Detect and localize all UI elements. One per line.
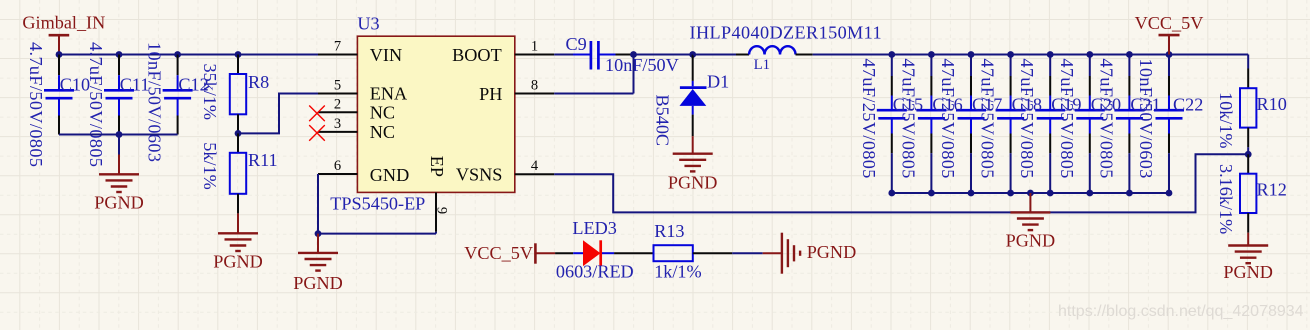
no-connect X pin 2 xyxy=(309,106,325,122)
capacitor C11 4.7uF/50V/0805 xyxy=(86,42,149,167)
capacitor C12 10nF/50V/0603 xyxy=(145,42,209,162)
wire VCC to LED3 xyxy=(555,252,573,254)
node junction C21 top xyxy=(1126,51,1133,58)
svg-text:PGND: PGND xyxy=(293,273,343,293)
wire node to L1 xyxy=(693,54,749,56)
svg-text:4.7uF/50V/0805: 4.7uF/50V/0805 xyxy=(26,42,46,167)
svg-text:7: 7 xyxy=(334,39,341,55)
wire R13 to PGND xyxy=(693,252,763,254)
node junction C15 top xyxy=(888,51,895,58)
node junction C11 bottom xyxy=(116,131,123,138)
LED LED3 0603/RED xyxy=(556,218,634,282)
resistor R13 1k/1% xyxy=(654,221,702,282)
wire bank top rail xyxy=(892,54,1248,56)
wire BOOT to C9 xyxy=(554,54,573,56)
svg-text:5k/1%: 5k/1% xyxy=(200,142,220,190)
ground PGND below D1 xyxy=(668,136,718,192)
svg-text:47uF/25V/0805: 47uF/25V/0805 xyxy=(938,58,958,178)
svg-text:VSNS: VSNS xyxy=(456,165,503,185)
svg-text:https://blog.csdn.net/qq_42078: https://blog.csdn.net/qq_42078934 xyxy=(1058,303,1304,320)
svg-text:3: 3 xyxy=(334,116,341,132)
node junction C18 top xyxy=(1007,51,1014,58)
node junction C22 top xyxy=(1166,51,1173,58)
svg-text:4.7uF/50V/0805: 4.7uF/50V/0805 xyxy=(86,42,106,167)
node junction C17 top xyxy=(968,51,975,58)
diode D1 B540C xyxy=(653,55,730,147)
designator label C15 xyxy=(893,95,923,115)
node junction bank PGND xyxy=(1027,190,1034,197)
ground PGND below R12 xyxy=(1223,233,1273,282)
pin 5 ENA xyxy=(318,78,407,104)
capacitor C10 4.7uF/50V/0805 xyxy=(26,42,90,167)
wire PH net xyxy=(554,55,633,94)
svg-text:9: 9 xyxy=(434,207,450,214)
ground PGND below C11 xyxy=(94,135,144,213)
designator label C19 xyxy=(1051,95,1081,115)
wire C9 to node xyxy=(616,54,634,56)
svg-text:NC: NC xyxy=(370,103,395,123)
node junction C19 bottom xyxy=(1047,190,1054,197)
svg-text:47uF/25V/0805: 47uF/25V/0805 xyxy=(978,58,998,178)
svg-text:C22: C22 xyxy=(1173,95,1203,115)
svg-text:GND: GND xyxy=(370,165,409,185)
node junction R10 bottom xyxy=(1245,151,1252,158)
pin 1 BOOT xyxy=(452,39,554,65)
wire GND to EP xyxy=(318,233,436,235)
resistor R8 35k/1% xyxy=(200,55,269,134)
node junction D1 top xyxy=(689,51,696,58)
designator label C21 xyxy=(1130,95,1160,115)
svg-text:R13: R13 xyxy=(654,221,684,241)
svg-text:PGND: PGND xyxy=(668,172,718,192)
no-connect X pin 3 xyxy=(309,125,325,141)
svg-text:VCC_5V: VCC_5V xyxy=(464,243,533,263)
wire R8 to ENA xyxy=(238,94,318,134)
pin 7 VIN xyxy=(318,39,402,65)
node junction C10 top xyxy=(56,51,63,58)
svg-text:0603/RED: 0603/RED xyxy=(556,262,634,282)
pin 3 NC xyxy=(318,116,395,142)
wire LED3 to R13 xyxy=(614,252,653,254)
node junction C20 top xyxy=(1086,51,1093,58)
svg-text:C16: C16 xyxy=(932,95,962,115)
svg-text:10k/1%: 10k/1% xyxy=(1216,92,1236,149)
svg-text:U3: U3 xyxy=(357,14,379,34)
svg-text:NC: NC xyxy=(370,122,395,142)
capacitor C19 47uF/25V/0805 xyxy=(1017,55,1065,194)
svg-text:R10: R10 xyxy=(1257,94,1287,114)
svg-text:1: 1 xyxy=(531,39,538,55)
svg-text:D1: D1 xyxy=(707,71,729,91)
ground PGND below U3 xyxy=(293,234,343,293)
pin 9 EP xyxy=(427,156,450,232)
svg-text:5: 5 xyxy=(334,78,341,94)
ground PGND below bank xyxy=(1006,193,1056,251)
designator label C18 xyxy=(1012,95,1042,115)
watermark xyxy=(1058,303,1304,320)
svg-text:PGND: PGND xyxy=(213,252,263,272)
capacitor C21 47uF/25V/0805 xyxy=(1096,55,1144,194)
svg-text:47uF/25V/0805: 47uF/25V/0805 xyxy=(1017,58,1037,178)
capacitor C17 47uF/25V/0805 xyxy=(938,55,986,194)
svg-text:C10: C10 xyxy=(60,75,90,95)
svg-text:C17: C17 xyxy=(972,95,1002,115)
svg-text:C19: C19 xyxy=(1051,95,1081,115)
svg-text:ENA: ENA xyxy=(370,84,407,104)
capacitor C15 47uF/25V/0805 xyxy=(859,55,907,194)
resistor R12 3.16k/1% xyxy=(1216,154,1287,234)
node junction GND PGND xyxy=(315,230,322,237)
svg-text:C15: C15 xyxy=(893,95,923,115)
node junction C15 bottom xyxy=(888,190,895,197)
svg-text:1k/1%: 1k/1% xyxy=(654,262,702,282)
svg-text:47uF/25V/0805: 47uF/25V/0805 xyxy=(1057,58,1077,178)
pin 4 VSNS xyxy=(456,158,554,185)
power port VCC_5V LED row xyxy=(464,243,555,264)
power port VCC_5V right xyxy=(1135,13,1204,55)
node junction C12 top xyxy=(174,51,181,58)
resistor R10 10k/1% xyxy=(1216,55,1287,155)
node junction R8 bottom xyxy=(235,130,242,137)
node junction C21 bottom xyxy=(1126,190,1133,197)
svg-text:47uF/25V/0805: 47uF/25V/0805 xyxy=(1096,58,1116,178)
node junction C17 bottom xyxy=(968,190,975,197)
node junction C18 bottom xyxy=(1007,190,1014,197)
designator label C17 xyxy=(972,95,1002,115)
svg-text:47uF/25V/0805: 47uF/25V/0805 xyxy=(898,58,918,178)
svg-text:10nF/50V/0603: 10nF/50V/0603 xyxy=(1136,58,1156,178)
svg-text:47uF/25V/0805: 47uF/25V/0805 xyxy=(859,58,879,178)
node junction C22 bottom xyxy=(1166,190,1173,197)
svg-text:PGND: PGND xyxy=(94,193,144,213)
wire bottom rail left caps xyxy=(59,134,178,136)
capacitor C22 10nF/50V/0603 xyxy=(1136,55,1184,194)
svg-text:Gimbal_IN: Gimbal_IN xyxy=(22,13,105,33)
svg-text:LED3: LED3 xyxy=(572,218,616,238)
capacitor C16 47uF/25V/0805 xyxy=(898,55,946,194)
op-amp U3 TPS5450-EP body xyxy=(330,14,515,214)
svg-text:BOOT: BOOT xyxy=(452,45,502,65)
svg-text:PGND: PGND xyxy=(1223,262,1273,282)
svg-text:C20: C20 xyxy=(1091,95,1121,115)
svg-text:10nF/50V: 10nF/50V xyxy=(605,55,679,75)
svg-text:B540C: B540C xyxy=(653,95,673,147)
svg-text:C21: C21 xyxy=(1130,95,1160,115)
svg-text:PGND: PGND xyxy=(1006,231,1056,251)
svg-text:R8: R8 xyxy=(248,72,269,92)
node junction C20 bottom xyxy=(1086,190,1093,197)
wire EP riser xyxy=(435,232,437,234)
designator label C22 xyxy=(1173,95,1203,115)
svg-text:EP: EP xyxy=(427,156,447,177)
pin 6 GND xyxy=(318,158,409,185)
svg-text:PGND: PGND xyxy=(807,242,857,262)
node junction R8 top xyxy=(235,51,242,58)
capacitor C20 47uF/25V/0805 xyxy=(1057,55,1105,194)
svg-text:8: 8 xyxy=(531,78,538,94)
wire VSNS feedback xyxy=(554,154,1248,212)
power port Gimbal_IN xyxy=(22,13,105,55)
resistor R11 5k/1% xyxy=(200,133,278,213)
designator label C20 xyxy=(1091,95,1121,115)
wire top rail VIN net xyxy=(59,54,318,56)
node junction C16 top xyxy=(928,51,935,58)
pin 8 PH xyxy=(479,78,554,104)
svg-text:C9: C9 xyxy=(566,34,587,54)
ground PGND below R11 xyxy=(213,213,263,271)
pin 2 NC xyxy=(318,96,395,122)
node junction C11 top xyxy=(116,51,123,58)
svg-text:6: 6 xyxy=(334,158,341,174)
svg-text:10nF/50V/0603: 10nF/50V/0603 xyxy=(145,42,165,162)
wire bank bottom rail xyxy=(892,192,1169,194)
wire L1 to bank xyxy=(796,54,892,56)
svg-text:R12: R12 xyxy=(1257,180,1287,200)
inductor L1 IHLP4040DZER150M11 xyxy=(690,23,882,74)
ground PGND LED row (horizontal) xyxy=(763,233,857,274)
svg-text:4: 4 xyxy=(531,158,539,174)
svg-text:2: 2 xyxy=(334,96,341,112)
svg-text:C18: C18 xyxy=(1012,95,1042,115)
svg-text:VCC_5V: VCC_5V xyxy=(1135,13,1204,33)
capacitor C9 10nF/50V xyxy=(566,34,679,75)
svg-text:VIN: VIN xyxy=(370,45,402,65)
node junction PH/BOOT xyxy=(630,51,637,58)
wire node to D1 node xyxy=(634,54,693,56)
svg-text:PH: PH xyxy=(479,84,502,104)
svg-text:35k/1%: 35k/1% xyxy=(200,64,220,121)
svg-text:IHLP4040DZER150M11: IHLP4040DZER150M11 xyxy=(690,23,882,43)
svg-text:L1: L1 xyxy=(754,57,770,73)
node junction C19 top xyxy=(1047,51,1054,58)
designator label C16 xyxy=(932,95,962,115)
wire GND pin down xyxy=(317,174,319,234)
svg-text:3.16k/1%: 3.16k/1% xyxy=(1216,164,1236,234)
svg-text:R11: R11 xyxy=(248,150,278,170)
capacitor C18 47uF/25V/0805 xyxy=(978,55,1026,194)
svg-text:TPS5450-EP: TPS5450-EP xyxy=(330,194,425,214)
node junction C16 bottom xyxy=(928,190,935,197)
